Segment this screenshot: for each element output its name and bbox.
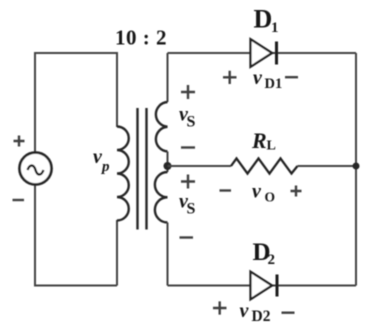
vO plus label: [291, 186, 302, 197]
transformer core line left: [136, 108, 138, 230]
svg-text:S: S: [187, 201, 196, 218]
transformer primary winding: [117, 127, 129, 221]
svg-text:2: 2: [268, 252, 276, 268]
D1 minus label: [285, 76, 298, 78]
wire primary right lower: [116, 220, 118, 286]
wire secondary vertical bottom: [167, 223, 169, 286]
resistor RL: [231, 159, 298, 174]
svg-text:p: p: [100, 159, 110, 175]
D2 minus label: [282, 312, 295, 314]
svg-text:v: v: [240, 300, 250, 322]
svg-text:L: L: [267, 139, 276, 154]
svg-text:O: O: [265, 190, 276, 205]
diode D1 triangle: [251, 39, 273, 67]
ac source sine symbol: [28, 166, 44, 175]
node center tap junction dot: [164, 162, 172, 170]
secondary upper minus label: [181, 146, 195, 148]
ac source V1 circle: [20, 153, 52, 185]
D2 plus label: [213, 301, 227, 314]
wire primary left lower: [34, 184, 36, 287]
wire secondary vertical top: [167, 53, 169, 102]
wire right vertical: [355, 53, 357, 286]
svg-text:10 : 2: 10 : 2: [115, 26, 167, 50]
svg-text:D1: D1: [265, 76, 283, 92]
transformer secondary winding upper vs: [156, 102, 168, 152]
node right junction dot: [353, 163, 360, 170]
wire middle right: [298, 165, 357, 167]
diode D1 cathode bar: [275, 42, 278, 65]
ac source plus label: [14, 136, 25, 147]
diode D2 cathode bar: [276, 275, 279, 297]
vO minus label: [220, 189, 232, 191]
secondary lower minus label: [180, 236, 194, 238]
wire middle left: [168, 165, 232, 167]
ac source minus label: [13, 199, 25, 201]
D1 plus label: [223, 71, 237, 84]
wire primary right upper: [116, 52, 118, 127]
wire primary bottom: [35, 285, 117, 287]
wire primary left upper: [34, 52, 36, 152]
svg-text:D: D: [254, 5, 273, 34]
diode D2 triangle: [251, 272, 273, 300]
wire top secondary to right: [168, 52, 357, 54]
wire bottom secondary: [168, 285, 357, 287]
secondary lower plus label: [181, 175, 195, 189]
secondary upper plus label: [181, 85, 195, 99]
svg-text:D2: D2: [252, 308, 271, 325]
svg-text:v: v: [252, 181, 262, 203]
svg-text:v: v: [253, 67, 263, 89]
svg-text:1: 1: [271, 20, 279, 36]
transformer core line right: [145, 108, 147, 230]
wire primary top: [35, 52, 117, 54]
svg-text:R: R: [251, 128, 267, 153]
wire center tap: [167, 152, 169, 173]
transformer secondary winding lower vs: [155, 172, 168, 223]
svg-text:S: S: [187, 114, 196, 131]
